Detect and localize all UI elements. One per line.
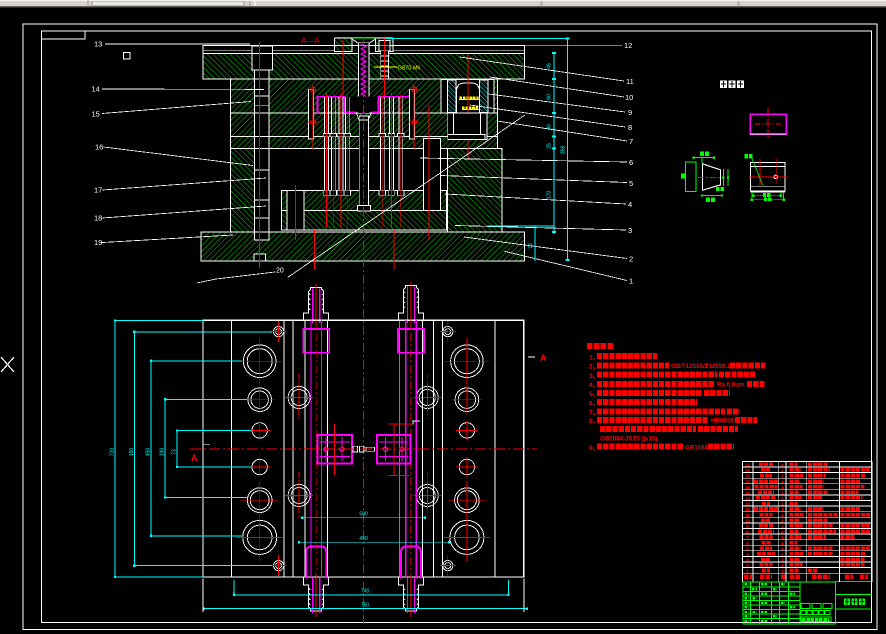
- svg-text:2: 2: [746, 563, 749, 569]
- svg-text:10: 10: [625, 93, 633, 102]
- svg-text:5: 5: [746, 546, 749, 552]
- svg-text:17: 17: [94, 186, 102, 195]
- svg-text:10: 10: [745, 518, 751, 524]
- svg-text:75: 75: [528, 243, 534, 249]
- svg-text:12: 12: [745, 507, 751, 513]
- svg-text:13: 13: [745, 502, 751, 508]
- svg-text:4: 4: [781, 546, 784, 552]
- svg-text:1: 1: [629, 277, 633, 286]
- svg-text:710: 710: [110, 448, 116, 457]
- svg-text:7: 7: [746, 535, 749, 541]
- svg-text:11: 11: [626, 77, 634, 86]
- svg-text:150: 150: [129, 448, 135, 457]
- svg-text:1: 1: [746, 569, 749, 575]
- svg-text:16: 16: [745, 485, 751, 491]
- svg-text:20: 20: [276, 268, 284, 275]
- svg-text:1: 1: [781, 535, 784, 541]
- svg-text:4: 4: [781, 496, 784, 502]
- svg-text:500: 500: [359, 512, 368, 518]
- svg-text:12: 12: [624, 41, 632, 50]
- svg-text:5: 5: [629, 179, 633, 188]
- svg-text:14: 14: [745, 496, 751, 502]
- svg-text:1: 1: [781, 507, 784, 513]
- svg-text:1: 1: [781, 569, 784, 575]
- svg-text:4: 4: [746, 552, 749, 558]
- svg-text:358: 358: [561, 146, 567, 155]
- svg-text:6: 6: [746, 541, 749, 547]
- svg-text:1: 1: [781, 468, 784, 474]
- svg-text:73: 73: [172, 449, 178, 455]
- svg-text:1: 1: [781, 490, 784, 496]
- svg-text:450: 450: [359, 536, 368, 542]
- svg-text:3: 3: [746, 558, 749, 564]
- svg-text:A: A: [191, 453, 198, 463]
- svg-text:18: 18: [94, 214, 102, 223]
- svg-text:4: 4: [781, 479, 784, 485]
- svg-text:80: 80: [547, 94, 553, 100]
- svg-text:8: 8: [746, 530, 749, 536]
- svg-text:745: 745: [361, 589, 370, 595]
- svg-text:1: 1: [781, 474, 784, 480]
- svg-text:13: 13: [94, 40, 102, 49]
- svg-text:16: 16: [95, 143, 103, 152]
- svg-text:Ra 0.8um: Ra 0.8um: [717, 382, 745, 389]
- svg-text:11: 11: [745, 513, 750, 519]
- svg-text:4: 4: [781, 563, 784, 569]
- svg-text:1: 1: [781, 485, 784, 491]
- svg-text:/T12556.2: /T12556.2: [703, 363, 731, 370]
- svg-text:3: 3: [628, 226, 632, 235]
- svg-text:4: 4: [781, 463, 784, 469]
- svg-text:9: 9: [746, 524, 749, 530]
- svg-text:1: 1: [781, 502, 784, 508]
- svg-text:25: 25: [547, 143, 553, 149]
- svg-text:750: 750: [361, 602, 370, 608]
- svg-text:18: 18: [745, 474, 751, 480]
- svg-text:8: 8: [628, 123, 632, 132]
- svg-text:9: 9: [628, 108, 632, 117]
- svg-text:A: A: [540, 353, 547, 363]
- svg-text:4: 4: [628, 200, 632, 209]
- svg-text:6: 6: [629, 158, 633, 167]
- svg-text:20: 20: [745, 463, 751, 469]
- svg-text:45: 45: [547, 63, 553, 69]
- svg-text:1: 1: [781, 552, 784, 558]
- svg-text:15: 15: [745, 490, 751, 496]
- svg-text:4: 4: [781, 513, 784, 519]
- svg-text:7: 7: [629, 137, 633, 146]
- svg-text:14: 14: [92, 85, 100, 94]
- svg-text:17: 17: [745, 479, 751, 485]
- svg-text:1: 1: [781, 541, 784, 547]
- svg-text:1: 1: [781, 518, 784, 524]
- svg-text:1: 1: [781, 558, 784, 564]
- svg-text:15: 15: [92, 110, 100, 119]
- svg-text:170: 170: [547, 191, 553, 200]
- svg-text:GB70-M6: GB70-M6: [398, 66, 420, 72]
- svg-text:GB1084-JS15 (js15): GB1084-JS15 (js15): [600, 436, 657, 443]
- svg-text:19: 19: [745, 468, 751, 474]
- svg-text:30: 30: [547, 124, 553, 130]
- svg-text:2: 2: [629, 255, 633, 264]
- svg-text:GB1184: GB1184: [685, 444, 708, 451]
- svg-text:190: 190: [160, 448, 166, 457]
- svg-text:A—A: A—A: [301, 37, 320, 46]
- svg-text:4: 4: [781, 530, 784, 536]
- svg-text:450: 450: [146, 448, 152, 457]
- svg-text:HB6958: HB6958: [711, 418, 734, 425]
- svg-text:1: 1: [781, 524, 784, 530]
